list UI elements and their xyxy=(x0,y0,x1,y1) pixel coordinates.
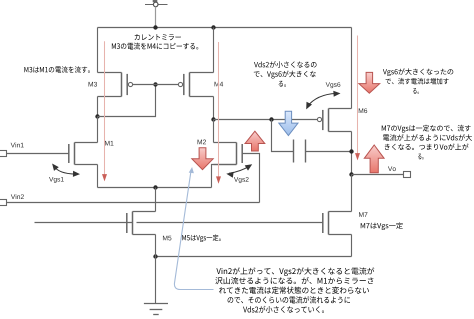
block arrow Vds2 shrink (blue down) xyxy=(279,111,298,135)
label M5 xyxy=(163,236,171,241)
annotation M7 Vgs constant xyxy=(361,222,403,230)
capacitor C1 left plate xyxy=(293,140,295,163)
annotation M3 mirrors M1 current xyxy=(24,66,90,73)
wire ground stem xyxy=(155,257,157,304)
curved arrow Vgs6 xyxy=(306,91,340,110)
block arrow M2 current increase (red down) xyxy=(192,148,213,170)
wire node A down to capacitor xyxy=(272,120,294,152)
wire M4 drain down to M2 drain xyxy=(213,120,215,143)
wire VDD stem xyxy=(155,7,157,28)
annotation M5 Vgs constant xyxy=(182,234,221,242)
current arrow I-M4/M2 (thin red) xyxy=(216,42,221,184)
wire M6 drain to output node xyxy=(351,132,353,175)
wire node A to M6 gate xyxy=(214,119,319,121)
annotation M7 Vgs constant Vo rises xyxy=(382,125,472,160)
wire M2 gate to Vin2 xyxy=(242,154,260,203)
wire gate bias left segment xyxy=(35,222,133,224)
label Vin1 xyxy=(11,143,24,148)
wire rail to M6 source xyxy=(351,28,353,109)
terminal Vin1 xyxy=(0,151,7,157)
node A capacitor branch junction xyxy=(269,117,273,121)
power VDD terminal xyxy=(145,0,168,7)
wire output node down to M7 drain xyxy=(351,175,353,212)
block arrow Vo rise (red up) xyxy=(364,145,384,173)
label Vgs6 xyxy=(326,82,341,88)
block arrow Vgs2 increase (red up) xyxy=(245,131,265,151)
node M4-source junction xyxy=(211,25,215,29)
transistor M7 (NMOS) xyxy=(323,212,352,235)
callout line to M2 Vds2 note (blue) xyxy=(174,167,213,290)
block arrow Vgs6 current (red down) xyxy=(359,72,380,93)
transistor M5 (NMOS) xyxy=(127,212,156,235)
transistor M2 (NMOS) xyxy=(214,143,243,165)
transistor M6 (PMOS) xyxy=(317,109,351,132)
wire M1 drain up to node B xyxy=(97,117,99,143)
label Vo xyxy=(388,166,396,171)
label Vin2 xyxy=(11,194,24,199)
label M3 xyxy=(89,82,97,87)
wire capacitor to output node xyxy=(306,151,352,153)
wire gate bias to M7 gate xyxy=(137,222,323,224)
wire M3 drain to node B xyxy=(97,97,99,117)
node A M4 drain junction xyxy=(211,117,215,121)
terminal Vo xyxy=(404,172,411,178)
wire M2 source jog to tail xyxy=(212,165,237,188)
curved arrow Vgs1 xyxy=(52,164,80,177)
wire Vin1 to M1 gate xyxy=(7,153,70,155)
label M4 xyxy=(215,82,224,87)
label M2 xyxy=(198,140,206,145)
node ground junction xyxy=(153,254,157,258)
label M7 xyxy=(359,212,367,217)
node output capacitor junction xyxy=(349,149,353,153)
wire diode-connect M3 xyxy=(98,85,156,117)
wire tail node xyxy=(98,187,212,189)
node B M3 drain junction xyxy=(95,114,99,118)
ground symbol xyxy=(144,304,168,315)
wire M3 gate to M4 gate xyxy=(133,84,179,86)
label Vgs2 xyxy=(234,177,249,183)
wire ground bus xyxy=(156,256,352,258)
annotation Vin2 rises Vds2 shrinks note xyxy=(215,267,374,313)
current arrow I-M3/M1 (thin red) xyxy=(102,41,107,181)
terminal Vin2 xyxy=(0,200,7,206)
wire M5 drain up to tail xyxy=(155,188,157,212)
annotation Vgs6 grew current increases xyxy=(383,68,453,93)
wire M1 source down to tail xyxy=(97,165,99,188)
label M1 xyxy=(105,141,113,146)
curved arrow Vgs2 xyxy=(226,164,252,178)
wire output to Vo terminal xyxy=(352,174,404,176)
label M6 xyxy=(359,108,367,113)
node M3-M4 gate junction xyxy=(153,82,157,86)
wire M4 source to rail xyxy=(213,28,215,73)
wire VDD rail to M3 source xyxy=(97,28,99,73)
transistor M4 (PMOS) xyxy=(178,73,213,97)
node tail junction M5 drain xyxy=(153,185,157,189)
capacitor C1 right plate xyxy=(305,140,307,163)
wire M4 drain to node A xyxy=(213,97,215,120)
annotation Vds2 shrinks Vgs6 grows xyxy=(254,61,317,87)
annotation current mirror title xyxy=(112,34,198,49)
transistor M3 (PMOS) xyxy=(98,73,133,97)
transistor M1 (NMOS) xyxy=(69,143,98,165)
current arrow I-M6 (thin red) xyxy=(355,36,360,161)
wire M7 source down xyxy=(351,235,353,257)
node VDD-stem junction xyxy=(153,25,157,29)
wire M5 source down to ground bus xyxy=(155,235,157,257)
wire Vin2 to M2 gate xyxy=(7,202,260,204)
wire top VDD rail xyxy=(98,27,352,29)
node output Vo junction xyxy=(349,172,353,176)
label Vgs1 xyxy=(49,177,64,183)
